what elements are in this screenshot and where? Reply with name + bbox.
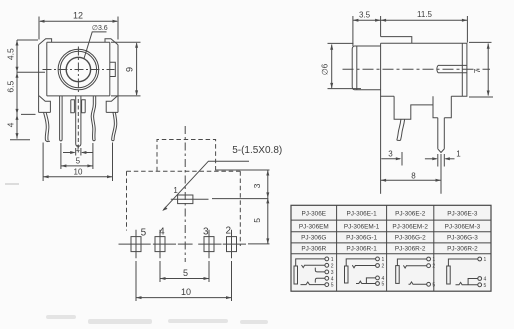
pad 2 centerline [231,230,233,258]
schematic cell 3 terminal 5 [427,282,431,286]
svg-text:3: 3 [331,270,334,276]
jack bushing inner ring [60,51,96,87]
top-left tab [39,39,52,45]
schematic cell 2 tip contact [352,265,375,268]
far-right bent pin [112,112,117,140]
vertical centerline [184,126,186,262]
svg-text:PJ-306G: PJ-306G [301,235,326,242]
svg-text:1: 1 [432,257,435,263]
large dashed outline top [127,170,241,172]
svg-text:∅6: ∅6 [321,63,330,75]
svg-text:5: 5 [183,268,188,278]
pad 3 centerline [208,230,210,258]
svg-text:10: 10 [181,287,191,297]
schematic cell 4 terminal 5 [478,283,482,287]
dimension 12 extension lines [38,17,40,40]
svg-text:11.5: 11.5 [417,10,433,19]
svg-text:PJ-306EM-2: PJ-306EM-2 [392,223,428,230]
left extension line for 8 [380,96,382,194]
svg-text:4: 4 [159,226,165,237]
svg-text:PJ-306EM: PJ-306EM [299,223,329,230]
center pin 1 [76,96,81,146]
svg-text:5: 5 [331,283,334,289]
svg-text:PJ-306EM-1: PJ-306EM-1 [344,223,380,230]
svg-text:PJ-306EM-3: PJ-306EM-3 [445,223,481,230]
table background [291,205,491,291]
svg-text:PJ-306E: PJ-306E [302,210,327,217]
schematic cell 2 sleeve [345,266,349,283]
svg-text:PJ-306G-3: PJ-306G-3 [447,235,478,242]
schematic cell 4 pin1 wire [448,259,477,266]
svg-text:PJ-306R-2: PJ-306R-2 [395,246,426,253]
svg-text:∅3.6: ∅3.6 [92,25,108,32]
center pin dashed centerline [77,99,79,153]
schematic cell 1 pin4 wire [315,278,325,282]
svg-text:2: 2 [432,264,435,270]
dimension 10 extension lines (footprint) [136,261,232,301]
dimension 8 label (side) [411,171,416,180]
dimension 11.5 label [417,10,433,19]
right straight pin 3 [91,96,96,141]
pad 4 label [159,226,165,237]
dimension extension lines top [353,16,468,46]
dimension 5 label (front) [76,156,81,165]
svg-text:3: 3 [252,183,262,188]
left dimension arrows [16,40,19,139]
top tab [381,37,412,44]
dimension d6 extension lines [328,43,362,88]
schematic cell 3 ring contact [409,282,427,284]
svg-text:4: 4 [331,276,334,282]
far-left bent pin [44,113,50,142]
table texts row 2 [299,223,481,230]
schematic cell 1 terminal 1 [325,257,329,261]
svg-text:5: 5 [432,282,435,288]
schematic cell 2 terminal 2 [376,264,380,268]
label d6 [321,63,330,75]
top-right tab [105,39,118,45]
rear block [433,96,451,118]
schematic cell 1 tip contact [302,265,325,268]
faint scan artifact left [5,183,19,185]
dimension 7 extension lines [469,42,493,97]
svg-text:PJ-306G-2: PJ-306G-2 [395,235,426,242]
dimension 1 arrows (front) [63,152,75,154]
schematic cell 1 pin1 wire [296,259,325,266]
dimension 10 line (footprint) [136,297,232,299]
jack hole circle d3.6 [66,57,90,81]
svg-text:1: 1 [331,257,334,263]
svg-text:7: 7 [473,68,482,73]
side centerline [343,68,491,70]
large dashed outline right [239,171,241,246]
center left prong [71,100,75,113]
dimension 9 line [136,43,138,95]
dimension 10 label (footprint) [181,287,191,297]
svg-text:1: 1 [382,257,385,263]
dimension 5 line (front) [61,165,93,167]
schematic cell 2 pin numbers [382,257,385,288]
schematic cell 2 terminal 5 [376,282,380,286]
leader line [163,161,249,210]
centerline cross at pad row [178,243,193,245]
dimension 3 label (side) [388,150,393,159]
svg-text:PJ-306G-1: PJ-306G-1 [346,235,377,242]
svg-text:12: 12 [73,11,83,21]
dimension 3 line (side) [381,158,400,160]
svg-text:9: 9 [125,67,135,72]
dimension 12 label [73,11,83,21]
bottom step profile [394,96,433,119]
barrel front face [352,46,354,90]
schematic cell 4 sleeve [447,266,451,284]
svg-text:2: 2 [226,225,232,236]
right dimension line [267,170,269,244]
left dimension chain line [16,40,18,139]
svg-text:6.5: 6.5 [5,81,15,93]
svg-text:5: 5 [252,218,262,223]
svg-text:1: 1 [456,150,461,159]
right side bump [110,62,116,76]
svg-text:5: 5 [382,282,385,288]
schematic cell 4 ring contact [456,282,478,284]
bottom-left tab [39,96,51,113]
dimension 10 extension lines (front) [42,143,44,182]
right flange inner line [461,43,463,96]
schematic cell 2 pin1 wire [346,259,375,266]
schematic cell 1 pin3 wire [315,268,325,272]
svg-text:PJ-306R: PJ-306R [301,246,326,253]
front leg [397,119,405,140]
pad 1 label [173,186,178,195]
schematic cell 4 terminal 4 [478,277,482,281]
dimension 7 line [487,44,489,96]
small dashed outline [157,140,216,172]
schematic cell 4 pin4 wire [468,279,478,285]
schematic cell 2 ring contact [356,281,376,283]
schematic cell 1 sleeve [294,266,298,284]
svg-text:1: 1 [76,144,81,153]
schematic cell 1 pin numbers [331,257,334,289]
schematic cell 4 pin numbers [484,257,487,289]
svg-text:5: 5 [76,156,81,165]
dimension 5 label (footprint bottom) [183,268,188,278]
barrel top [355,45,381,47]
svg-text:4: 4 [484,277,487,283]
schematic cell 1 terminal 3 [325,270,329,274]
dimension 5 extension lines (front) [60,143,62,169]
dimension 9 label [125,67,135,72]
dimension 5 label (footprint right) [252,218,262,223]
schematic cell 2 pin4 wire [366,278,375,284]
right dimension extension lines [212,170,270,244]
faint scan artifacts bottom [46,315,268,324]
left straight pin 5 [60,96,63,141]
pad 1 [178,195,193,204]
pad 5 [131,237,141,252]
schematic cell 2 terminal 4 [376,276,380,280]
label 4 [5,122,15,127]
svg-text:PJ-306E-3: PJ-306E-3 [447,210,478,217]
dimension 3.5 label [359,11,371,20]
side body outline [381,43,467,96]
dimension 5 line (footprint bottom) [160,278,209,280]
dimension 7 label [473,68,482,73]
table texts row 4 [301,246,478,253]
svg-text:8: 8 [411,171,416,180]
dimension 9 arrows [135,42,138,96]
pad 3 [204,237,214,252]
pad 3 label [203,226,209,237]
svg-text:PJ-306R-2: PJ-306R-2 [447,246,478,253]
schematic cell 2 terminal 1 [376,257,380,261]
table row lines [291,220,491,254]
dimension 8 line (side) [381,179,441,181]
left extension lines [10,40,45,140]
label 4.5 [5,48,15,60]
table texts row 3 [301,235,478,242]
schematic cell 1 terminal 4 [325,276,329,280]
horizontal centerline [43,69,115,71]
bottom-right tab [106,96,118,113]
schematic cell 3 sleeve [396,266,400,284]
dimension 3.5/11.5 line [353,19,468,21]
label d3.6 [92,25,108,32]
dimension 9 extension lines [111,41,141,43]
jack bushing outer circle [58,49,99,90]
schematic cell 1 terminal 5 [325,283,329,287]
dimension 1 lines (side) [425,158,437,160]
right rail [117,45,119,113]
pad 2 label [226,225,232,236]
rear leg extension lines [438,154,445,194]
svg-text:4: 4 [5,122,15,127]
barrel bottom [355,89,381,91]
schematic cell 3 pin1 wire [397,259,426,266]
pad 4 [155,237,165,252]
dimension 1 label (front) [76,144,81,153]
dimension 12 arrows [39,20,118,23]
svg-text:5: 5 [141,228,147,239]
schematic cell 4 terminal 1 [478,257,482,261]
table column lines [337,205,434,291]
pad row crosslines [119,243,247,245]
schematic cell 3 terminal 2 [427,264,431,268]
schematic cell 3 tip contact [403,265,426,268]
table texts row 1 [302,210,478,217]
svg-text:3: 3 [203,226,209,237]
pad 5 centerline [135,230,137,258]
schematic cell 3 terminal 1 [427,257,431,261]
svg-text:PJ-306R-1: PJ-306R-1 [346,246,377,253]
svg-text:2: 2 [331,263,334,269]
svg-text:2: 2 [382,264,385,270]
dimension 5 extension lines (footprint bottom) [160,261,209,282]
pad 2 [227,237,237,252]
side slot [437,65,467,72]
large dashed outline left [126,171,128,230]
svg-text:PJ-306E-2: PJ-306E-2 [395,210,426,217]
svg-text:PJ-306E-1: PJ-306E-1 [346,210,377,217]
front leg extension line [401,152,403,166]
pad 4 centerline [159,230,161,258]
svg-text:3.5: 3.5 [359,11,371,20]
svg-text:4.5: 4.5 [5,48,15,60]
body rectangle [47,42,110,96]
pad 5 label [141,228,147,239]
leader line for d3.6 [84,32,107,59]
svg-text:3: 3 [388,150,393,159]
svg-text:10: 10 [74,168,83,177]
dimension 1 label (side) [456,150,461,159]
schematic cell 3 pin numbers [432,257,435,288]
barrel front rim [356,46,358,90]
left rail [38,45,40,113]
center right prong [82,100,86,113]
dimension d6 line [331,45,333,89]
svg-text:5-(1.5X0.8): 5-(1.5X0.8) [232,145,282,156]
dimension 10 line (front) [43,176,112,178]
vertical centerline [77,47,79,94]
dimension 12 line [40,20,117,22]
dimension 1 extension lines (front) [75,148,77,156]
label 6.5 [5,81,15,93]
table outer border [291,205,491,291]
svg-text:5: 5 [484,283,487,289]
dimension 3 label (footprint) [252,183,262,188]
schematic cell 1 terminal 2 [325,263,329,267]
pad 1 crossline [171,198,209,200]
dimension 10 label (front) [74,168,83,177]
label 5-(1.5X0.8) [232,145,282,156]
svg-text:1: 1 [484,257,487,263]
schematic cell 1 ring contact [301,282,325,285]
rear leg [438,118,445,153]
